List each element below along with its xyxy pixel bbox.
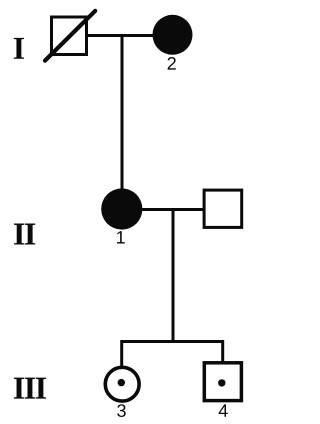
label 1 for II-1 — [117, 231, 125, 243]
wire: descent line from couple I to II-1 — [121, 34, 124, 200]
wire: sibship line with drops to III-3 and III-4 — [122, 342, 223, 368]
wire: marriage line I-1 to I-2 — [86, 34, 154, 37]
individual I-1 deceased male (square) — [52, 17, 87, 55]
wire: descent line from couple II down to sibship line — [172, 210, 175, 344]
carrier dot of III-3 — [118, 379, 125, 386]
generation label II — [14, 224, 35, 245]
generation label III — [14, 378, 46, 399]
generation label I — [14, 38, 24, 59]
individual II-1 affected female (filled circle) — [101, 188, 142, 229]
label 4 for III-4 — [219, 404, 228, 416]
label 3 for III-3 — [117, 404, 126, 417]
deceased slash over I-1 — [45, 11, 95, 61]
wire: marriage line II-1 to II-2 — [139, 208, 205, 211]
carrier dot of III-4 — [218, 379, 225, 386]
individual III-3 carrier female (circle with dot) — [105, 367, 139, 401]
individual II-2 unaffected male (square) — [204, 190, 242, 227]
label 2 for I-2 — [168, 57, 176, 70]
individual III-4 carrier male (square with dot) — [204, 363, 241, 401]
individual I-2 affected female (filled circle) — [153, 15, 193, 55]
